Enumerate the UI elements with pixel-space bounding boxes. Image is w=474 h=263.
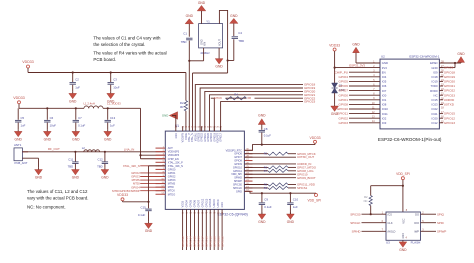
chip U1 left pin names [161, 147, 183, 197]
wire rail2 drop to VDDA3P3 pins [139, 108, 165, 158]
svg-text:GND: GND [69, 99, 77, 103]
svg-text:GPIO12: GPIO12 [444, 116, 455, 120]
svg-text:GND: GND [162, 114, 168, 118]
note about C11 L2 C12 [27, 189, 89, 200]
ground above C8 [258, 114, 266, 130]
svg-text:IO3: IO3 [382, 121, 387, 125]
svg-text:3V3: 3V3 [382, 66, 387, 70]
wire rail1 drop to VDDA pin [185, 73, 187, 132]
capacitor C10 [287, 192, 298, 214]
wire right row U0RXD_IN [244, 162, 311, 166]
svg-text:VDD33: VDD33 [22, 60, 34, 64]
note about R4 [93, 51, 166, 62]
wire rail2 left [19, 107, 84, 109]
svg-text:GPIO21: GPIO21 [444, 84, 455, 88]
wires chip left gpio stubs [112, 164, 165, 193]
svg-text:IO21: IO21 [432, 112, 439, 116]
svg-text:vary with the actual PCB board: vary with the actual PCB board. [27, 196, 89, 201]
svg-text:GPIO22: GPIO22 [444, 89, 455, 93]
svg-text:TBD: TBD [181, 40, 187, 44]
svg-text:VDD_SPI: VDD_SPI [308, 199, 322, 203]
wire 3V3 [334, 64, 381, 69]
svg-text:IO7: IO7 [382, 89, 387, 93]
svg-text:GND: GND [258, 114, 266, 118]
svg-text:C6: C6 [50, 116, 54, 120]
chip U1 bottom pin names [182, 198, 225, 214]
svg-text:XTAL_32K_P: XTAL_32K_P [168, 161, 183, 164]
resistor SPICS1 R9 [264, 186, 288, 190]
svg-text:XTAL_32K_N: XTAL_32K_N [123, 164, 140, 168]
svg-text:IO23: IO23 [432, 103, 439, 107]
svg-text:VDD_SPI: VDD_SPI [396, 172, 410, 176]
svg-text:GPIO3: GPIO3 [339, 121, 349, 125]
svg-text:GPIO13: GPIO13 [444, 121, 455, 125]
svg-text:1uF: 1uF [110, 124, 115, 128]
svg-text:The values of C11, L2 and C12: The values of C11, L2 and C12 [27, 189, 88, 194]
wire antenna to chip ANT pin [22, 151, 165, 153]
svg-text:GND: GND [457, 52, 465, 56]
wires flash right pins [414, 211, 446, 233]
svg-text:C15: C15 [140, 206, 146, 210]
svg-text:0.1uF: 0.1uF [138, 213, 146, 217]
svg-text:NC: No component.: NC: No component. [27, 205, 66, 210]
svg-text:IO11: IO11 [382, 112, 388, 116]
svg-text:XIN: XIN [204, 42, 207, 46]
svg-text:MTDO: MTDO [168, 193, 175, 196]
svg-text:VCC: VCC [402, 218, 405, 223]
ground above Y1 top pin [197, 1, 206, 23]
svg-text:IO10: IO10 [382, 107, 389, 111]
svg-text:0R: 0R [248, 96, 252, 100]
capacitor C6 [44, 107, 56, 130]
svg-text:GND: GND [72, 176, 80, 180]
svg-text:U3: U3 [386, 241, 390, 245]
svg-text:ESP32-C6-WROOM-1: ESP32-C6-WROOM-1 [409, 55, 439, 59]
node GPIO11_VDD [297, 183, 315, 187]
svg-text:0.1uF: 0.1uF [264, 205, 272, 209]
svg-text:IO6: IO6 [382, 84, 387, 88]
wire C1 to XIN node [188, 41, 190, 62]
svg-text:U0TXD: U0TXD [217, 199, 220, 207]
chip U1 top pin names [175, 126, 223, 142]
node GPIO6_MTCK [297, 152, 316, 156]
svg-text:VDD3: VDD3 [182, 200, 185, 207]
svg-text:NC: NC [434, 93, 438, 97]
svg-text:/HOLD: /HOLD [388, 229, 396, 233]
svg-text:SPICS0: SPICS0 [350, 212, 361, 216]
label left of R4 [214, 96, 222, 100]
node GPIO19 [304, 86, 315, 90]
capacitor C8 [259, 127, 272, 146]
svg-text:GPIO23: GPIO23 [304, 100, 315, 104]
svg-text:SPID: SPID [437, 221, 444, 225]
svg-text:GND: GND [431, 66, 437, 70]
svg-text:SPID: SPID [236, 190, 242, 193]
svg-text:GPIO22: GPIO22 [220, 236, 224, 247]
svg-text:GND: GND [230, 14, 238, 18]
svg-text:C3: C3 [113, 78, 117, 82]
ground antenna pin 2 [22, 158, 42, 179]
capacitor C13 [105, 107, 116, 130]
chip U1 right pin names [226, 149, 250, 194]
label right of R4 [248, 96, 252, 100]
svg-text:GND: GND [221, 202, 224, 208]
wire right row GPIO6_MTCK [244, 153, 296, 155]
svg-text:C9: C9 [264, 198, 268, 202]
svg-text:SPIWP: SPIWP [437, 229, 446, 233]
svg-text:IO8: IO8 [382, 103, 387, 107]
svg-text:GPIO11: GPIO11 [337, 112, 348, 116]
svg-text:GPIO15: GPIO15 [209, 198, 212, 207]
svg-text:U2: U2 [381, 55, 385, 59]
svg-text:IO1: IO1 [382, 98, 387, 102]
ground below C13 [104, 130, 112, 142]
wire bus row GPIO22 [211, 98, 303, 131]
svg-text:IO15: IO15 [432, 98, 439, 102]
svg-text:IO20: IO20 [432, 116, 439, 120]
wire R3 to CS [370, 206, 372, 216]
svg-text:GPIO1: GPIO1 [339, 98, 349, 102]
svg-text:GPIO10: GPIO10 [337, 107, 348, 111]
ground below C10 [287, 212, 295, 224]
wire rail2 right [103, 107, 141, 109]
wires flash left pins [350, 211, 395, 233]
svg-text:SPICLK: SPICLK [350, 221, 360, 225]
svg-text:1uF: 1uF [75, 86, 80, 90]
svg-text:0R: 0R [180, 105, 184, 109]
svg-text:NC: NC [364, 199, 368, 203]
svg-text:VDD33: VDD33 [310, 136, 321, 140]
svg-text:VDD33: VDD33 [13, 96, 25, 100]
label LNA_IN [124, 148, 135, 152]
svg-text:C13: C13 [110, 116, 116, 120]
svg-text:GND: GND [352, 43, 360, 47]
svg-text:CLK: CLK [388, 221, 393, 225]
wire bus row GPIO20 [205, 91, 303, 131]
svg-text:GPIO20: GPIO20 [444, 80, 455, 84]
nodes chip bottom net labels [181, 236, 225, 247]
svg-text:FLASH: FLASH [411, 241, 421, 245]
svg-text:GPIO18: GPIO18 [444, 70, 455, 74]
wire C4 to XOUT node [227, 39, 234, 61]
svg-text:GPIO12: GPIO12 [201, 198, 204, 207]
capacitor C2 [70, 71, 81, 91]
svg-text:DO: DO [415, 212, 419, 216]
svg-text:10uF: 10uF [50, 124, 57, 128]
module U2 right pin names [430, 61, 444, 126]
svg-text:GND: GND [15, 137, 23, 141]
svg-text:MTCK: MTCK [214, 96, 222, 100]
ground below flash [399, 240, 407, 252]
svg-text:VDDA3P3: VDDA3P3 [168, 151, 180, 154]
wire bus row GPIO23 [221, 102, 303, 132]
svg-text:GND: GND [215, 65, 223, 69]
svg-text:VDDA3P3: VDDA3P3 [168, 154, 180, 157]
node GPIO23 [304, 100, 315, 104]
svg-text:TBD: TBD [97, 164, 103, 168]
svg-text:GPIO1: GPIO1 [168, 172, 176, 175]
svg-text:VDD33: VDD33 [117, 193, 128, 197]
capacitor C4 [232, 31, 244, 43]
svg-text:IO9: IO9 [433, 70, 438, 74]
note about C1 C4 crystal [93, 36, 161, 47]
svg-text:PCB_ANT: PCB_ANT [15, 161, 28, 165]
svg-text:C8: C8 [264, 127, 268, 131]
svg-text:IO18: IO18 [432, 75, 439, 79]
node GPIO7_MTDO [297, 166, 317, 170]
resistor GPIO6_MTCK R5 [264, 152, 288, 156]
svg-text:MTMS: MTMS [168, 183, 176, 186]
svg-text:GPIO15: GPIO15 [444, 112, 455, 116]
node GPIO21 [304, 93, 315, 97]
svg-text:ANT1: ANT1 [14, 143, 22, 147]
svg-text:GPIO2: GPIO2 [168, 176, 176, 179]
svg-text:TXD0: TXD0 [430, 84, 438, 88]
power port VDD33 (EN) [117, 193, 148, 202]
svg-text:0.1uF: 0.1uF [264, 134, 271, 138]
wire right row GPIO11_VDD [244, 184, 296, 186]
capacitor C5 [15, 108, 26, 130]
svg-text:GND: GND [186, 14, 194, 18]
svg-text:L1_VDD33: L1_VDD33 [107, 102, 121, 106]
svg-text:SPIQ: SPIQ [437, 212, 445, 216]
ground module right [439, 52, 465, 68]
svg-text:SPIHD: SPIHD [352, 229, 361, 233]
svg-text:GPIO8: GPIO8 [339, 103, 349, 107]
power port VDD33 (rail 1) [22, 60, 34, 73]
svg-text:GPIO9: GPIO9 [444, 66, 454, 70]
svg-text:C2: C2 [75, 78, 79, 82]
label RF_OUT [48, 147, 60, 151]
svg-text:U0RXD: U0RXD [213, 199, 216, 207]
svg-text:GPIO0: GPIO0 [168, 168, 176, 171]
diode D1 TVS [332, 81, 345, 104]
resistor R4 [226, 93, 247, 100]
svg-text:MTCK: MTCK [168, 190, 175, 193]
wire XIN pin [189, 48, 203, 61]
svg-text:40MHz: 40MHz [200, 51, 210, 55]
wire flash pullup branch [371, 186, 403, 196]
svg-text:GND: GND [258, 220, 266, 224]
node GPIO22 [304, 96, 315, 100]
ground below C3 [107, 92, 115, 104]
wire VDD3P3_RTC to rail [244, 145, 315, 151]
svg-text:IO12: IO12 [432, 121, 439, 125]
svg-text:ESP32-C6-WROOM-1(Pin-out): ESP32-C6-WROOM-1(Pin-out) [378, 137, 442, 142]
wire bus row GPIO19 [200, 88, 303, 131]
svg-text:GPIO7: GPIO7 [197, 199, 200, 207]
svg-text:IO22: IO22 [432, 107, 439, 111]
capacitor C9 [259, 192, 272, 214]
resistor GPIO8_LOG R7 [264, 169, 288, 173]
svg-text:XOUT: XOUT [219, 39, 222, 46]
svg-text:GND: GND [287, 220, 295, 224]
ground below D1 [331, 104, 339, 116]
svg-text:The values of C1 and C4 vary w: The values of C1 and C4 vary with [93, 36, 161, 41]
svg-text:C11: C11 [68, 157, 73, 161]
svg-text:GPIO7: GPIO7 [339, 89, 349, 93]
svg-text:MTDI: MTDI [168, 186, 174, 189]
svg-text:LNA_IN: LNA_IN [124, 148, 135, 152]
svg-text:GND: GND [399, 248, 407, 252]
svg-text:EN: EN [382, 70, 386, 74]
svg-text:GND: GND [44, 137, 52, 141]
svg-text:IO5: IO5 [382, 80, 387, 84]
svg-text:GPIO6: GPIO6 [193, 199, 196, 207]
svg-text:EPAD: EPAD [430, 61, 437, 65]
svg-text:GPIO5: GPIO5 [339, 80, 349, 84]
resistor GPIO7_MTDO R6 [264, 166, 288, 170]
wire right row SPICS1 [244, 187, 296, 189]
wire XOUT to chip XTAL_N [193, 73, 228, 131]
node GPIO8_LOG [297, 169, 314, 173]
ground below C2 [69, 92, 77, 104]
svg-text:GPIO9_BOOT: GPIO9_BOOT [297, 176, 316, 180]
svg-text:IO4: IO4 [382, 75, 387, 79]
crystal Y1 box [199, 19, 223, 48]
svg-text:The value of R4 varies with th: The value of R4 varies with the actual [93, 51, 166, 56]
power port VDD_SPI [308, 193, 322, 202]
ground below C12 [101, 168, 109, 180]
svg-text:0.1uF: 0.1uF [78, 124, 85, 128]
node SPICS1 [297, 186, 308, 190]
svg-text:GND: GND [145, 229, 153, 233]
svg-text:IO19: IO19 [432, 80, 439, 84]
svg-text:CHIP_EN: CHIP_EN [168, 158, 179, 161]
svg-text:XTAL_32K_N: XTAL_32K_N [168, 165, 183, 168]
svg-text:GPIO5: GPIO5 [190, 199, 193, 207]
inductor L2 [82, 146, 100, 152]
resistor R3 [364, 195, 373, 206]
svg-text:IO0: IO0 [382, 93, 387, 97]
ground below C7 [72, 130, 80, 142]
svg-text:C12: C12 [98, 157, 104, 161]
svg-text:RXD0: RXD0 [430, 89, 438, 93]
svg-text:GND: GND [104, 137, 112, 141]
wires module right nets [439, 66, 455, 125]
wire XIN to chip XTAL_P [188, 61, 190, 131]
wires module left nets [335, 70, 380, 125]
wire VDD_SPI rail [244, 191, 316, 193]
inductor L1 [84, 102, 122, 109]
svg-text:GPIO4: GPIO4 [186, 199, 189, 207]
op chip U1 ESP32-C6 box [165, 124, 248, 216]
svg-text:GND: GND [72, 137, 80, 141]
svg-text:Y1: Y1 [206, 19, 210, 23]
svg-text:/WP: /WP [414, 229, 419, 233]
ground above C4 [230, 14, 238, 36]
svg-text:C1: C1 [183, 32, 187, 36]
svg-text:1uF: 1uF [293, 205, 298, 209]
svg-text:C5: C5 [21, 116, 25, 120]
wire right row GPIO8_LOG [244, 170, 296, 172]
svg-text:PCB board.: PCB board. [93, 57, 116, 62]
antenna ANT1 [14, 143, 28, 165]
svg-text:GND: GND [382, 61, 388, 65]
svg-text:TBD: TBD [68, 164, 74, 168]
power port VDD33 (module) [329, 44, 340, 82]
svg-text:RF_OUT: RF_OUT [48, 147, 60, 151]
svg-text:GPIO2: GPIO2 [339, 116, 349, 120]
svg-text:/CS: /CS [388, 212, 393, 216]
wire CHIP_EN [147, 166, 165, 208]
svg-text:10uF: 10uF [113, 86, 120, 90]
capacitor C15 [138, 206, 152, 222]
ground below C9 [258, 212, 266, 224]
svg-text:VDD33: VDD33 [329, 44, 340, 48]
power port VDD_SPI (flash) [396, 172, 410, 212]
ground below C5 [14, 130, 22, 142]
wire XOUT loop [219, 10, 227, 73]
svg-text:GND: GND [101, 176, 109, 180]
capacitor C11 [68, 151, 79, 169]
resistor R2 on VDDA line [180, 101, 188, 111]
chip U1 pin stubs left right [156, 148, 253, 194]
node GPIO20 [304, 90, 315, 94]
svg-text:GPIO3: GPIO3 [168, 179, 176, 182]
svg-text:GND: GND [198, 1, 206, 5]
svg-text:GPIO4: GPIO4 [339, 75, 349, 79]
flash U3 box [386, 209, 421, 245]
ground module pin1 [352, 43, 380, 63]
resistor GPIO11_VDD R8 [264, 183, 288, 187]
svg-text:GPIO6: GPIO6 [339, 84, 349, 88]
caption pin-out [378, 137, 442, 142]
capacitor C3 [108, 71, 120, 91]
capacitor C7 [73, 107, 86, 130]
svg-text:DIO: DIO [414, 221, 419, 225]
svg-text:U0RXD: U0RXD [444, 98, 455, 102]
capacitor C12 [97, 151, 108, 169]
svg-text:CHIP_PU: CHIP_PU [335, 70, 348, 74]
wire bus row GPIO21 [210, 95, 304, 131]
ground below C15 [145, 222, 153, 234]
svg-text:ESP32_3V3: ESP32_3V3 [349, 64, 365, 68]
wire right row GPIO7_MTDO [244, 166, 296, 168]
svg-text:C7: C7 [78, 116, 82, 120]
module U2 left pin names [372, 61, 388, 125]
svg-text:GPIO17: GPIO17 [220, 132, 223, 141]
ground above C1 [185, 14, 193, 37]
wire right row GPIO9_BOOT [244, 176, 315, 180]
svg-text:L1 2.4nH: L1 2.4nH [84, 102, 95, 106]
wire rail1 [28, 72, 186, 74]
svg-text:TBD: TBD [238, 39, 244, 43]
wire right row GPIO10 [244, 172, 307, 176]
wire stub top pins [183, 126, 221, 131]
power port VDD33 (right) [310, 136, 321, 145]
label 40MHz [200, 51, 210, 55]
svg-text:GND: GND [35, 176, 43, 180]
note NC [27, 205, 66, 210]
svg-text:L2: L2 [82, 146, 86, 150]
svg-text:the selection of the crystal.: the selection of the crystal. [93, 42, 145, 47]
svg-text:1uF: 1uF [21, 124, 26, 128]
ground below Y1 (case) [215, 48, 223, 69]
svg-text:R4: R4 [234, 93, 238, 97]
svg-text:R2: R2 [364, 195, 368, 199]
node GPIO18 [304, 83, 315, 87]
svg-text:SPICS1: SPICS1 [297, 186, 308, 190]
svg-text:ANT: ANT [168, 147, 173, 150]
ground below C6 [43, 130, 51, 142]
svg-text:GPIO13: GPIO13 [205, 198, 208, 207]
ground below C11 [72, 168, 80, 180]
wire bus row GPIO18 [195, 85, 303, 132]
capacitor C1 [181, 32, 193, 44]
svg-text:C4: C4 [238, 31, 242, 35]
svg-text:GPIO0: GPIO0 [339, 93, 349, 97]
